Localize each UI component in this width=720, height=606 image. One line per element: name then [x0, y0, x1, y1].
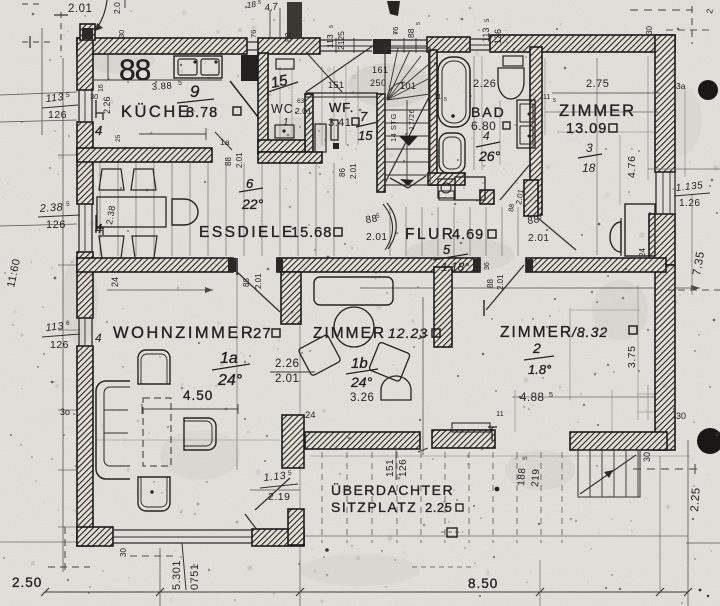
svg-text:18: 18: [582, 161, 596, 175]
kitchen bottom wall: [77, 148, 212, 162]
door flur-zimmer13: [538, 218, 576, 250]
partition wohnzimmer/zimmer12 stub: [281, 272, 301, 324]
wf boiler fixtures: [315, 124, 326, 152]
svg-text:26°: 26°: [478, 148, 501, 164]
svg-text:126: 126: [50, 339, 69, 351]
svg-text:24: 24: [305, 410, 316, 421]
svg-text:30: 30: [642, 452, 652, 462]
wc/wf partition: [305, 94, 313, 152]
kitchen sink: [174, 56, 222, 78]
svg-text:5: 5: [538, 214, 542, 221]
z13 basin bowl: [610, 222, 621, 252]
svg-text:5: 5: [66, 201, 70, 208]
svg-text:5.301: 5.301: [171, 560, 183, 590]
svg-text:5: 5: [553, 98, 556, 104]
door essdiele-wohnzimmer: [237, 272, 280, 312]
dashes bottom-left: [64, 527, 66, 572]
svg-text:88: 88: [242, 278, 251, 287]
svg-text:88: 88: [406, 28, 416, 38]
svg-text:219: 219: [530, 468, 542, 487]
svg-text:11: 11: [543, 94, 550, 101]
svg-text:2.01: 2.01: [68, 3, 92, 15]
chairs top: [99, 169, 124, 190]
svg-text:113: 113: [481, 28, 491, 42]
svg-text:76: 76: [249, 30, 258, 38]
chair D right: [172, 199, 198, 225]
svg-text:FLUR: FLUR: [405, 226, 455, 243]
staircase: [385, 48, 430, 185]
middle wall (full width): [77, 258, 233, 272]
bad door leaf: [500, 163, 531, 200]
svg-text:88: 88: [486, 279, 495, 288]
svg-text:15.68: 15.68: [291, 225, 332, 241]
svg-text:3.41: 3.41: [328, 117, 351, 129]
svg-text:5: 5: [258, 0, 261, 6]
svg-text:4.76: 4.76: [626, 156, 638, 178]
svg-text:2.50: 2.50: [12, 575, 42, 590]
svg-text:2.01: 2.01: [235, 152, 244, 168]
window above bad: [470, 38, 490, 40]
svg-text:24: 24: [638, 248, 647, 257]
svg-text:1a: 1a: [220, 137, 230, 147]
svg-text:14 STG: 14 STG: [389, 113, 398, 142]
svg-text:2: 2: [532, 340, 541, 356]
svg-text:27: 27: [253, 325, 272, 342]
dashes right of zimmer8: [666, 289, 720, 291]
svg-text:30: 30: [119, 548, 128, 557]
tilted chair left: [298, 334, 341, 376]
svg-text:101: 101: [400, 81, 417, 91]
dining table: [97, 197, 166, 227]
svg-text:SITZPLATZ: SITZPLATZ: [331, 499, 417, 515]
svg-text:126: 126: [398, 459, 409, 477]
svg-text:113: 113: [325, 34, 335, 48]
bad/zimmer13 wall: [530, 47, 542, 215]
armchair right: [184, 418, 216, 450]
svg-text:15: 15: [358, 128, 373, 143]
svg-text:113: 113: [45, 320, 64, 334]
svg-text:4: 4: [95, 123, 102, 138]
svg-text:WOHNZIMMER: WOHNZIMMER: [113, 324, 255, 342]
svg-text:88: 88: [283, 32, 293, 42]
bad toilet: [503, 56, 523, 66]
svg-text:5: 5: [376, 213, 380, 220]
partition zimmer12/zimmer8: [434, 267, 452, 347]
svg-text:2.01: 2.01: [349, 163, 358, 179]
svg-text:2.26: 2.26: [473, 78, 496, 90]
svg-text:3.88: 3.88: [151, 81, 172, 93]
svg-text:2.01: 2.01: [295, 106, 312, 116]
bottom-left exterior wall: [77, 527, 113, 546]
door wohnzimmer-sitzplatz: [255, 478, 290, 510]
arch chair: [381, 376, 411, 400]
bad bottom wall: [428, 173, 465, 185]
svg-text:188: 188: [516, 467, 528, 486]
svg-text:63: 63: [297, 98, 305, 105]
round table: [334, 307, 374, 347]
bottom wall zimmer8 right: [570, 432, 667, 450]
svg-text:4.50: 4.50: [183, 388, 213, 403]
flur washbasin nook wall: [524, 180, 538, 216]
essdiele window left: [78, 204, 80, 252]
door top-left arc outside: [96, 0, 107, 29]
svg-text:ÜBERDACHTER: ÜBERDACHTER: [331, 481, 454, 498]
corner stub above wall: [80, 24, 95, 40]
svg-text:9: 9: [190, 82, 200, 101]
tilted chair right: [369, 342, 411, 382]
svg-text:8.78: 8.78: [186, 105, 218, 121]
svg-text:2.01: 2.01: [275, 373, 299, 385]
arrowhead of long line: [691, 285, 700, 291]
svg-text:0751: 0751: [189, 564, 201, 590]
chimney dark block top: [287, 2, 302, 38]
svg-text:BAD: BAD: [471, 104, 506, 120]
svg-text:126: 126: [48, 109, 67, 121]
armchair top: [138, 350, 170, 384]
door swing arc at stairs: [387, 203, 396, 249]
wf top boundary lines: [305, 92, 378, 94]
svg-text:88: 88: [119, 54, 151, 87]
black blob right lower: [697, 428, 720, 454]
living-room window bottom: [113, 529, 252, 531]
exterior steps: [578, 450, 640, 497]
bottom wall zimmer12 / sitzplatz: [305, 432, 420, 449]
wc bottom walls: [258, 140, 305, 152]
wc toilet: [275, 125, 294, 138]
left exterior wall: [77, 38, 93, 90]
svg-text:3.26: 3.26: [350, 392, 374, 404]
chairs bottom: [99, 236, 124, 258]
z8 window sill rect: [452, 423, 490, 432]
svg-text:5: 5: [288, 470, 292, 477]
wc left wall: [258, 53, 268, 153]
svg-text:2.75: 2.75: [586, 78, 609, 90]
svg-text:ZIMMER: ZIMMER: [559, 102, 636, 120]
svg-text:1.13: 1.13: [263, 470, 287, 484]
svg-text:86: 86: [338, 168, 347, 177]
svg-text:11: 11: [434, 94, 441, 101]
washer block in nook: [455, 177, 485, 200]
svg-text:5: 5: [444, 97, 447, 103]
svg-text:22°: 22°: [241, 196, 264, 212]
svg-text:2.0: 2.0: [112, 2, 122, 14]
svg-text:4.69: 4.69: [452, 227, 484, 243]
coffee table dashed: [143, 398, 171, 466]
svg-text:30: 30: [117, 30, 126, 38]
svg-text:17/26: 17/26: [407, 109, 416, 130]
kitchen interior dim line: [139, 133, 206, 135]
svg-text:8.50: 8.50: [468, 576, 498, 591]
dashes top-left: [22, 3, 40, 5]
top exterior wall: [373, 39, 391, 54]
svg-text:3: 3: [586, 141, 593, 155]
flur nook stub: [480, 190, 494, 204]
svg-text:25: 25: [115, 134, 122, 142]
svg-text:12.23: 12.23: [388, 325, 428, 341]
svg-text:WF.: WF.: [329, 100, 354, 115]
svg-text:2.01: 2.01: [496, 274, 505, 290]
wf right wall / stair wall: [377, 94, 385, 192]
svg-text:3.75: 3.75: [626, 346, 638, 368]
svg-text:1.26: 1.26: [679, 198, 700, 209]
svg-text:2.26: 2.26: [102, 96, 112, 114]
svg-text:2125: 2125: [336, 31, 346, 50]
svg-text:5: 5: [443, 242, 451, 257]
svg-text:30: 30: [645, 26, 654, 35]
svg-text:/8.32: /8.32: [571, 324, 608, 340]
svg-text:36: 36: [484, 262, 491, 270]
svg-text:3a: 3a: [676, 81, 686, 91]
black dot right edge: [698, 80, 718, 100]
svg-text:2.25: 2.25: [425, 500, 452, 515]
svg-text:2.38: 2.38: [38, 201, 64, 215]
dark wedge top: [387, 1, 400, 16]
dashes top-right: [630, 9, 692, 11]
svg-text:1.18°: 1.18°: [441, 260, 469, 274]
kitchen corner door leaf: [230, 81, 258, 117]
svg-text:ZIMMER: ZIMMER: [500, 324, 573, 341]
svg-text:2.19: 2.19: [268, 491, 290, 503]
bad washbasin unit: [517, 100, 535, 148]
door flur-zimmer8: [486, 265, 524, 310]
top wall window lines: [247, 41, 258, 43]
svg-text:5: 5: [178, 80, 182, 87]
bottom wall zimmer8 left: [432, 430, 495, 448]
z13 washbasin cabinet: [625, 204, 655, 256]
zimmer13 window right: [655, 172, 657, 214]
svg-text:4: 4: [122, 146, 129, 150]
cross diagonals above WF: [306, 45, 374, 92]
svg-text:30: 30: [676, 411, 686, 421]
svg-text:5: 5: [66, 92, 70, 99]
svg-text:6: 6: [246, 176, 254, 191]
svg-text:2.26: 2.26: [275, 358, 299, 370]
pillar bottom of zimmer12: [282, 415, 304, 468]
shower tray: [439, 133, 465, 173]
svg-text:24: 24: [110, 277, 120, 287]
svg-text:151: 151: [385, 459, 396, 477]
dark door jambs: [228, 258, 236, 272]
svg-text:KÜCHE: KÜCHE: [121, 103, 191, 121]
svg-text:1.8°: 1.8°: [528, 362, 551, 377]
svg-text:126: 126: [493, 29, 503, 44]
kitchen counter line: [93, 79, 222, 81]
svg-text:6: 6: [66, 320, 70, 327]
svg-text:3o: 3o: [60, 407, 70, 417]
svg-text:5: 5: [416, 22, 422, 25]
stairs/bad thin wall: [429, 50, 437, 185]
svg-text:4,7: 4,7: [264, 1, 279, 14]
bad guide lines: [473, 56, 475, 170]
svg-text:2.01: 2.01: [528, 233, 549, 244]
svg-text:24°: 24°: [217, 372, 243, 389]
armchair bottom: [138, 477, 170, 511]
svg-text:88: 88: [224, 157, 233, 166]
svg-text:16: 16: [98, 84, 105, 92]
svg-text:30: 30: [90, 92, 98, 101]
window above stairs: [391, 39, 427, 41]
sofa: [96, 381, 130, 479]
wc cistern: [276, 59, 294, 69]
bathtub: [438, 57, 470, 127]
svg-text:18: 18: [246, 0, 257, 10]
svg-text:4.88: 4.88: [520, 392, 544, 404]
svg-text:4: 4: [483, 129, 490, 143]
svg-text:1b: 1b: [351, 355, 368, 372]
kitchen window left: [78, 90, 80, 122]
guide extension lines: [99, 163, 101, 256]
right exterior wall: [655, 35, 675, 172]
svg-text:5: 5: [549, 392, 553, 399]
svg-text:88: 88: [508, 203, 516, 212]
svg-text:5: 5: [329, 25, 335, 28]
window above WF: [320, 39, 372, 41]
svg-text:151: 151: [328, 80, 345, 90]
svg-text:24°: 24°: [350, 374, 373, 390]
svg-text:7: 7: [360, 109, 368, 124]
wohnzimmer window left: [78, 318, 80, 346]
svg-text:1: 1: [283, 117, 289, 128]
svg-text:ZIMMER: ZIMMER: [313, 325, 386, 342]
svg-text:4: 4: [95, 331, 102, 345]
small hook bottom right: [488, 427, 497, 441]
sideboard: [314, 277, 393, 305]
svg-text:2.01: 2.01: [254, 273, 263, 289]
svg-text:2.01: 2.01: [366, 232, 387, 243]
small marker square: [447, 528, 457, 537]
svg-text:2.25: 2.25: [689, 487, 703, 512]
svg-text:250: 250: [370, 78, 387, 88]
svg-text:ESSDIELE: ESSDIELE: [199, 224, 295, 241]
svg-text:13.09: 13.09: [566, 121, 607, 137]
dark door post kitchen corner: [241, 55, 259, 81]
svg-text:161: 161: [372, 65, 389, 75]
svg-text:11: 11: [496, 409, 504, 418]
